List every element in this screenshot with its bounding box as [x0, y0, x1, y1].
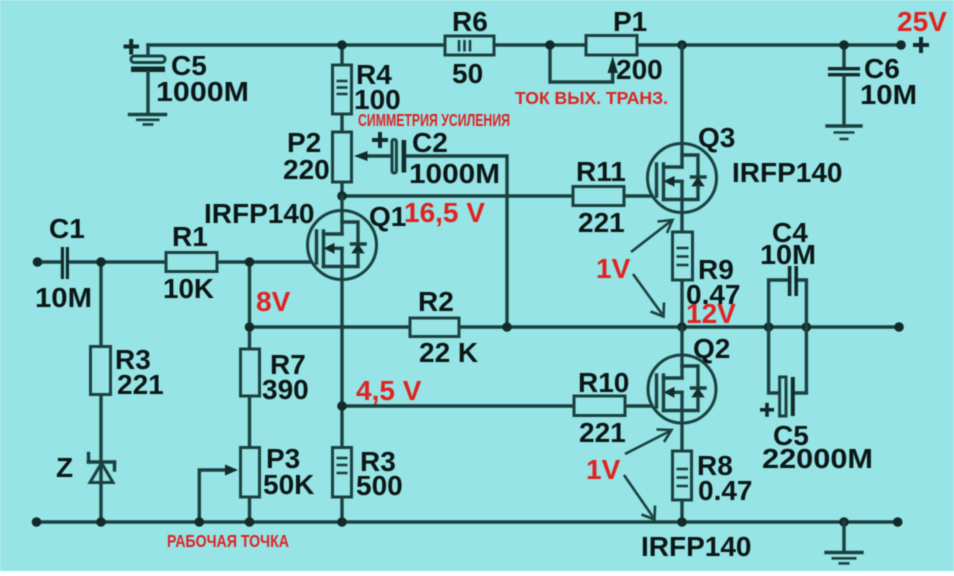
capacitor C5 top-left electrolytic: [131, 45, 165, 113]
svg-text:25V: 25V: [897, 6, 947, 37]
svg-text:10М: 10М: [860, 79, 917, 110]
svg-text:200: 200: [616, 54, 663, 85]
wire: 8V column input node down through R7 and P3 to bottom rail: [248, 262, 251, 522]
svg-text:22000М: 22000М: [762, 443, 873, 474]
potentiometer P1: [586, 36, 637, 56]
svg-text:Q3: Q3: [698, 122, 735, 153]
resistor R2: [410, 318, 459, 337]
node: bottom rail R3 500 junction: [337, 517, 347, 527]
svg-text:1V: 1V: [586, 454, 621, 485]
node: rail right end: [896, 40, 906, 50]
node: bottom rail zener junction: [96, 517, 106, 527]
node: junction C1/R3: [96, 257, 106, 267]
svg-text:10М: 10М: [35, 282, 92, 313]
plus sign at 25V rail end: [913, 37, 929, 53]
svg-text:R2: R2: [418, 286, 454, 317]
node: 12V junction R9/Q2: [677, 322, 687, 332]
plus sign of C5 bottom: [760, 403, 774, 417]
resistor R10: [574, 396, 625, 416]
wire: Q3 source through R9 to 12V node: [680, 213, 683, 327]
resistor R3 middle 500: [333, 448, 352, 498]
svg-text:16,5 V: 16,5 V: [404, 197, 485, 228]
plus sign of C2: [372, 132, 388, 148]
P3 wiper wire and arrow: [199, 465, 238, 523]
svg-text:10М: 10М: [760, 239, 816, 270]
P2 wiper arrow from C2: [354, 151, 392, 161]
transistor Q1 IRFP140: [308, 196, 377, 280]
wire: 4.5V line from Q1 source through R10 to Q2 gate: [342, 404, 657, 407]
zener diode Z: [89, 454, 115, 483]
resistor R7: [241, 349, 260, 396]
svg-text:22 K: 22 K: [419, 337, 478, 368]
node: rail junction at P1 wiper: [545, 40, 555, 50]
resistor R1: [166, 253, 217, 272]
node: rail junction at C6: [839, 40, 849, 50]
svg-text:10K: 10K: [163, 273, 214, 304]
wire: C2 coupling wire to output line: [406, 156, 507, 327]
node: rail junction at R4: [337, 40, 347, 50]
svg-text:8V: 8V: [256, 286, 291, 317]
node: bottom rail R8 junction: [677, 517, 687, 527]
node: output line C4/C5 left junction: [764, 322, 774, 332]
svg-text:РАБОЧАЯ ТОЧКА: РАБОЧАЯ ТОЧКА: [167, 531, 289, 551]
ground for C5 top-left: [130, 115, 166, 125]
svg-text:12V: 12V: [686, 298, 736, 329]
node: bottom rail ground junction: [839, 517, 849, 527]
wire: input line C1 to R1 to Q1 gate: [38, 260, 61, 263]
capacitor C6: [828, 45, 860, 126]
svg-text:221: 221: [579, 417, 626, 448]
node: rail junction at Q3 drain: [677, 40, 687, 50]
wire: Q1 drain node to R11 to Q3 gate: [342, 194, 657, 197]
node: bottom rail left end: [32, 517, 42, 527]
wire: Q1 source column down through R3 500 to bottom rail: [340, 280, 343, 523]
svg-text:221: 221: [117, 369, 164, 400]
wire: left column junction through R3 and zener to bottom rail: [99, 262, 102, 522]
node: output line C4/C5 right junction: [802, 322, 812, 332]
resistor R6: [445, 36, 494, 55]
node: 4.5V junction Q1 source: [337, 401, 347, 411]
resistor R9: [673, 232, 693, 280]
svg-text:IRFP140: IRFP140: [204, 198, 315, 229]
wire: output line 8V node through R2 to 12V node and output: [250, 325, 900, 328]
transistor Q2 IRFP140: [648, 327, 716, 423]
svg-text:221: 221: [578, 207, 625, 238]
capacitor C1: [61, 247, 69, 279]
wire: Q2 source through R8 to bottom rail: [680, 423, 683, 522]
svg-text:Z: Z: [56, 452, 73, 483]
wire: bottom rail: [37, 520, 898, 523]
svg-text:500: 500: [356, 470, 403, 501]
node: output line end: [894, 322, 904, 332]
node: Q1 drain / P2 bottom junction: [337, 191, 347, 201]
plus sign of C5 top-left: [124, 39, 140, 55]
svg-text:50K: 50K: [263, 469, 314, 500]
svg-text:1000М: 1000М: [156, 76, 249, 107]
svg-text:R10: R10: [578, 367, 629, 398]
node: bottom rail right end: [893, 517, 903, 527]
resistor R4: [333, 65, 352, 114]
svg-text:50: 50: [452, 58, 483, 89]
svg-text:ТОК ВЫХ. ТРАНЗ.: ТОК ВЫХ. ТРАНЗ.: [515, 88, 668, 108]
node: junction R1/Q1 gate/8V column: [245, 257, 255, 267]
svg-text:C2: C2: [412, 127, 448, 158]
potentiometer P2: [333, 132, 352, 182]
wire: ground stem bottom right: [842, 522, 845, 552]
svg-text:220: 220: [283, 154, 330, 185]
node: bottom rail P3 wiper junction: [195, 517, 205, 527]
svg-text:0.47: 0.47: [698, 475, 753, 506]
transistor Q3 IRFP140: [648, 45, 717, 213]
svg-text:C1: C1: [49, 213, 85, 244]
svg-text:P1: P1: [613, 6, 647, 37]
svg-text:Q1: Q1: [369, 201, 406, 232]
potentiometer P3: [241, 448, 260, 498]
capacitor C2 electrolytic: [392, 140, 406, 174]
capacitor C4: [769, 266, 807, 327]
svg-text:R6: R6: [452, 6, 488, 37]
arrow 1V to 12V node: [633, 274, 664, 317]
svg-text:R1: R1: [172, 221, 208, 252]
resistor R3 left: [91, 347, 111, 395]
arrow 1V to bottom rail: [624, 475, 655, 520]
wire: R4/P2 column from rail to Q1 drain node: [340, 45, 343, 196]
resistor R11: [573, 187, 624, 206]
wire: +25V top rail: [148, 43, 901, 46]
node: bottom rail R7/P3 junction: [245, 517, 255, 527]
svg-text:1000М: 1000М: [409, 158, 500, 189]
P1 wiper loop and arrow: [550, 45, 618, 82]
node: C2 junction on output line: [502, 322, 512, 332]
node: input line left end: [33, 257, 43, 267]
svg-text:Q2: Q2: [693, 333, 730, 364]
svg-text:IRFP140: IRFP140: [641, 531, 752, 562]
svg-text:IRFP140: IRFP140: [732, 157, 843, 188]
node: 8V junction on output line: [245, 322, 255, 332]
svg-text:R11: R11: [576, 156, 626, 187]
capacitor C5 bottom electrolytic: [769, 327, 807, 416]
resistor R8: [673, 451, 692, 500]
arrow 1V to Q2 source: [625, 430, 672, 455]
ground bottom right: [826, 553, 862, 564]
svg-text:1V: 1V: [596, 253, 631, 284]
ground for C6: [827, 126, 861, 139]
svg-text:СИММЕТРИЯ УСИЛЕНИЯ: СИММЕТРИЯ УСИЛЕНИЯ: [358, 110, 510, 130]
svg-text:390: 390: [262, 374, 309, 405]
arrow 1V to Q3 source: [631, 220, 673, 252]
svg-text:4,5 V: 4,5 V: [356, 375, 422, 406]
